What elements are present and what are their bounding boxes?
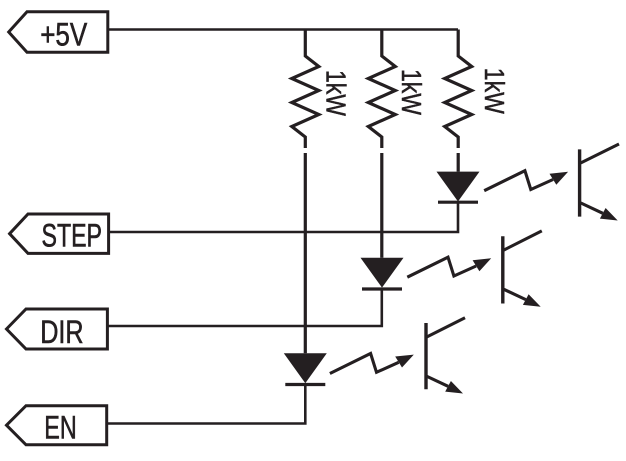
svg-text:DIR: DIR — [40, 314, 83, 350]
svg-text:1kW: 1kW — [479, 68, 510, 114]
svg-text:EN: EN — [44, 410, 77, 446]
svg-text:1kW: 1kW — [396, 69, 427, 115]
svg-text:+5V: +5V — [40, 16, 88, 52]
svg-text:STEP: STEP — [42, 218, 103, 254]
svg-text:1kW: 1kW — [320, 70, 351, 116]
